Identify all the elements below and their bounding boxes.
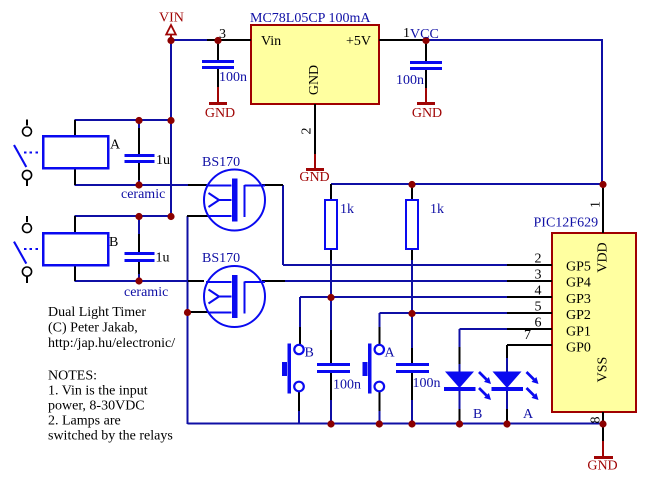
svg-text:A: A [385,346,396,361]
svg-text:100n: 100n [396,73,424,88]
svg-text:GP3: GP3 [566,292,591,307]
svg-text:2: 2 [300,128,315,135]
svg-text:GP5: GP5 [566,260,591,275]
svg-text:ceramic: ceramic [124,285,168,300]
svg-text:GND: GND [587,459,617,474]
svg-text:1: 1 [589,201,604,208]
svg-text:GP4: GP4 [566,276,591,291]
svg-text:4: 4 [535,284,542,299]
svg-text:5: 5 [535,300,542,315]
svg-text:+5V: +5V [346,34,371,49]
svg-text:100n: 100n [333,378,361,393]
svg-text:BS170: BS170 [202,155,240,170]
svg-text:GND: GND [307,65,322,95]
svg-text:1. Vin is the input: 1. Vin is the input [48,384,148,399]
svg-text:(C) Peter Jakab,: (C) Peter Jakab, [48,321,138,336]
svg-text:100n: 100n [413,376,441,391]
svg-text:GP0: GP0 [566,341,591,356]
svg-text:PIC12F629: PIC12F629 [534,216,599,231]
svg-text:NOTES:: NOTES: [48,369,97,384]
svg-text:B: B [109,235,118,250]
svg-text:GND: GND [205,106,235,121]
svg-text:1k: 1k [340,202,354,217]
svg-text:7: 7 [524,328,531,343]
svg-text:1k: 1k [430,202,444,217]
svg-text:8: 8 [589,417,604,424]
svg-text:VSS: VSS [596,357,611,383]
svg-text:VDD: VDD [596,242,611,272]
svg-text:B: B [473,407,482,422]
svg-text:2. Lamps are: 2. Lamps are [48,414,121,429]
svg-text:Vin: Vin [261,34,281,49]
svg-text:3: 3 [219,27,226,42]
svg-text:GND: GND [412,106,442,121]
svg-text:100n: 100n [219,70,247,85]
svg-text:GP1: GP1 [566,324,591,339]
svg-text:A: A [523,407,534,422]
svg-text:1: 1 [403,26,410,41]
svg-text:3: 3 [535,268,542,283]
svg-text:VCC: VCC [410,27,439,42]
svg-text:power, 8-30VDC: power, 8-30VDC [48,399,145,414]
svg-text:BS170: BS170 [202,251,240,266]
svg-text:1u: 1u [156,153,170,168]
svg-text:switched by the relays: switched by the relays [48,429,173,444]
svg-text:Dual Light Timer: Dual Light Timer [48,305,146,320]
svg-text:1u: 1u [156,251,170,266]
svg-text:GND: GND [299,170,329,185]
svg-text:http:/jap.hu/electronic/: http:/jap.hu/electronic/ [48,336,175,351]
svg-text:6: 6 [535,316,542,331]
svg-text:B: B [305,346,314,361]
svg-text:ceramic: ceramic [121,187,165,202]
svg-text:A: A [110,138,121,153]
svg-text:MC78L05CP 100mA: MC78L05CP 100mA [250,11,371,26]
svg-text:2: 2 [535,252,542,267]
svg-text:GP2: GP2 [566,308,591,323]
svg-text:VIN: VIN [159,11,184,26]
